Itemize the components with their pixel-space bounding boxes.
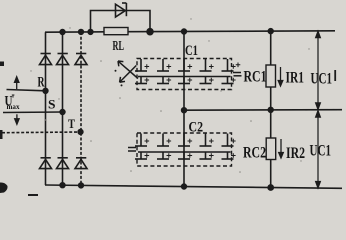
diode bridge bottom 1 xyxy=(40,158,52,169)
node R junction xyxy=(43,88,48,93)
capacitor bank box C1 xyxy=(137,59,232,90)
capacitor bank box C2 xyxy=(137,133,232,166)
wire top bus resistor left lead xyxy=(91,31,105,33)
wire RC column upper xyxy=(270,31,272,65)
arrow voltage UC1 upper xyxy=(316,31,321,109)
capacitor C2.1 top xyxy=(135,134,149,147)
fault arrow upper at C1 xyxy=(115,61,139,79)
diode bridge top 3 xyxy=(75,54,87,65)
diode bypass on RL loop xyxy=(116,3,127,17)
svg-text:T: T xyxy=(68,116,75,131)
capacitor C2.3 bottom xyxy=(178,153,192,160)
junction top bus at RL loop left xyxy=(88,30,93,35)
wire top bus xyxy=(45,31,335,32)
wire phase R xyxy=(7,90,46,91)
wire C1 inner mid bus xyxy=(138,76,231,78)
junction bottom bus at capacitor column xyxy=(182,184,187,189)
fault arrow lower at C1 xyxy=(120,66,137,87)
svg-text:C1: C1 xyxy=(185,43,198,59)
wire bridge column 2 xyxy=(62,32,64,185)
wire mid bus xyxy=(184,109,342,112)
capacitor C2.3 top xyxy=(178,134,192,147)
capacitor C2.5 top xyxy=(222,134,236,147)
svg-text:IR1: IR1 xyxy=(286,70,305,87)
node S junction xyxy=(60,110,65,115)
svg-text:IR2: IR2 xyxy=(286,145,305,162)
arrow current IR2 xyxy=(279,139,284,158)
wire phase S xyxy=(3,111,63,114)
capacitor C1.3 top xyxy=(178,59,192,71)
wire phase T xyxy=(2,131,81,134)
junction top bus at column 2 xyxy=(60,30,65,35)
arrow voltage UC1 lower xyxy=(316,111,321,188)
capacitor C2.2 top xyxy=(157,134,171,147)
svg-text:R: R xyxy=(38,75,45,91)
capacitor C1.5 top xyxy=(222,59,236,71)
junction bottom bus at column 2 xyxy=(60,183,65,188)
junction top bus at RC column xyxy=(268,29,273,34)
junction top bus at RL loop right xyxy=(147,29,153,35)
capacitor C1.2 bottom xyxy=(157,77,171,84)
svg-text:UC1: UC1 xyxy=(311,71,333,88)
wire RC column mid xyxy=(270,87,272,138)
junction top bus at capacitor column xyxy=(182,29,187,34)
svg-text:RL: RL xyxy=(113,39,125,54)
scan artifact right of UC1 xyxy=(334,70,336,81)
wire RL bypass loop xyxy=(91,11,151,32)
capacitor C2.1 bottom xyxy=(135,153,149,160)
diode bridge bottom 2 xyxy=(57,158,69,169)
svg-text:S: S xyxy=(48,96,56,111)
junction bottom bus at column 3 xyxy=(79,183,84,188)
scan artifact left edge middle xyxy=(0,130,3,139)
capacitor C2 fragment outside left edge xyxy=(128,148,136,152)
wire capacitor bank column xyxy=(183,32,185,111)
resistor RC2 xyxy=(266,138,276,160)
svg-text:C2: C2 xyxy=(189,120,204,136)
capacitor C2.4 bottom xyxy=(200,153,214,160)
capacitor C1.1 bottom xyxy=(135,77,149,84)
capacitor C1.1 top xyxy=(135,59,149,71)
wire bottom bus xyxy=(45,185,342,188)
svg-text:RC1: RC1 xyxy=(244,69,267,86)
wire bridge column 3 xyxy=(80,32,82,186)
svg-text:max: max xyxy=(7,103,20,111)
wire capacitor bank column lower xyxy=(183,110,185,186)
diode bridge top 2 xyxy=(57,54,69,65)
svg-text:RC2: RC2 xyxy=(243,145,266,162)
arrow down input voltage xyxy=(15,114,19,124)
scan artifact speckle noise xyxy=(30,18,309,173)
junction bottom bus at RC column xyxy=(268,185,273,190)
capacitor C2.4 top xyxy=(200,134,214,147)
capacitor C1.4 bottom xyxy=(200,77,214,84)
junction mid bus at capacitor column xyxy=(182,108,187,113)
capacitor C1.3 bottom xyxy=(178,77,192,84)
junction mid bus at RC column xyxy=(268,107,273,112)
capacitor C1.2 top xyxy=(157,59,171,71)
scan artifact tick at U top right xyxy=(12,95,15,98)
resistor RC1 xyxy=(266,65,276,87)
capacitor C1.4 top xyxy=(200,59,214,71)
arrow up input voltage xyxy=(15,77,19,89)
wire C2 inner mid bus xyxy=(138,151,231,153)
capacitor C2.2 bottom xyxy=(157,153,171,160)
node T junction xyxy=(78,130,83,135)
wire bridge column 1 xyxy=(45,32,47,185)
svg-text:UC1: UC1 xyxy=(310,143,332,160)
capacitor C2.5 bottom xyxy=(222,153,236,160)
junction top bus at column 3 xyxy=(79,30,84,35)
diode bridge bottom 3 xyxy=(75,158,87,169)
diode bridge top 1 xyxy=(40,54,52,65)
capacitor C1 fragment outside right edge xyxy=(233,63,242,76)
wire RC column lower xyxy=(270,160,272,188)
scan artifact left edge upper xyxy=(0,62,4,67)
resistor RL xyxy=(104,28,128,35)
scan artifact bottom dash xyxy=(28,194,38,196)
capacitor C1.5 bottom xyxy=(222,77,236,84)
scan artifact bottom left corner xyxy=(0,182,8,193)
arrow current IR1 xyxy=(278,67,283,86)
